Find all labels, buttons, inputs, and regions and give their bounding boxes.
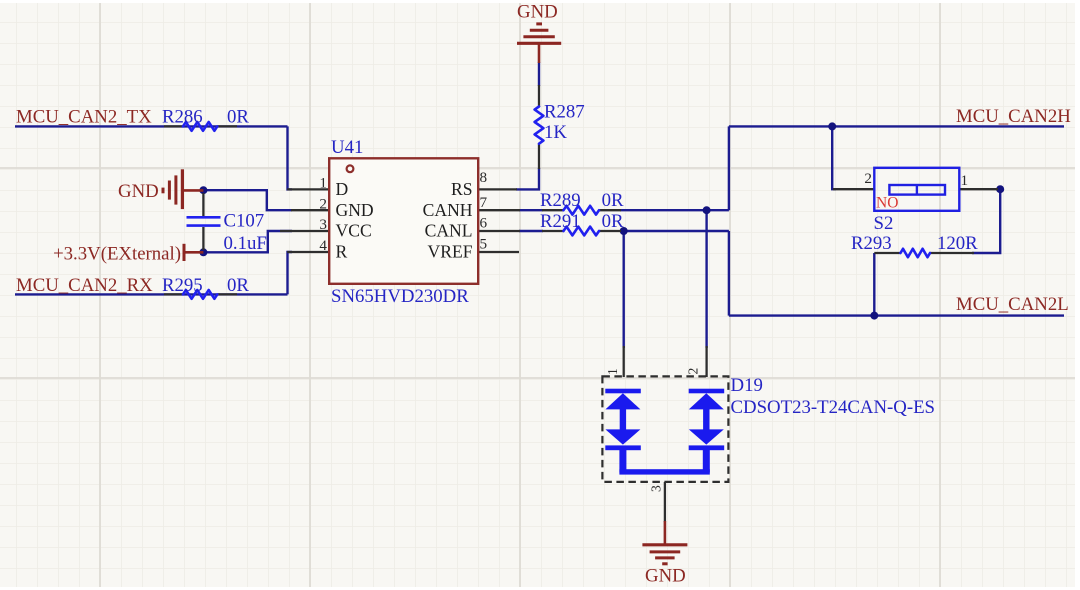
svg-text:R287: R287	[544, 102, 585, 123]
svg-text:0R: 0R	[227, 107, 249, 128]
ground symbol top (above R287)	[517, 24, 561, 63]
svg-text:7: 7	[480, 194, 488, 211]
wire CANH down to TVS pin2	[705, 210, 707, 348]
R295 pin left	[164, 293, 183, 295]
svg-text:R293: R293	[851, 233, 892, 254]
junction CAN2L / R293	[870, 312, 878, 320]
R291 pin left	[542, 230, 564, 232]
svg-text:0R: 0R	[227, 275, 249, 296]
svg-text:MCU_CAN2L: MCU_CAN2L	[956, 294, 1069, 315]
svg-text:R295: R295	[162, 275, 203, 296]
svg-text:3: 3	[649, 485, 664, 492]
TVS pin numbers (rotated)	[605, 368, 701, 492]
diode D19 left TVS pair (pin 1 leg)	[605, 389, 641, 473]
R293 pin left	[874, 252, 901, 254]
wire CANL down to TVS pin1	[623, 231, 625, 348]
R287 pin top	[538, 85, 540, 107]
svg-text:1K: 1K	[544, 122, 567, 143]
op-amp U41 body (SN65HVD230DR CAN transceiver)	[329, 158, 478, 283]
svg-text:4: 4	[319, 237, 327, 254]
svg-text:0.1uF: 0.1uF	[224, 233, 267, 254]
svg-text:MCU_CAN2_RX: MCU_CAN2_RX	[16, 275, 153, 296]
switch S2 pin2 stub	[833, 188, 875, 190]
pin 7 stub U41	[478, 209, 520, 211]
U41 pin-1 indicator circle	[347, 165, 354, 172]
svg-text:VREF: VREF	[428, 242, 473, 262]
svg-text:1: 1	[319, 175, 327, 192]
svg-text:R291: R291	[540, 211, 581, 232]
wire CAN2H drop to switch pin2	[832, 126, 836, 189]
wire CANH from R289 to corner	[519, 209, 543, 211]
svg-text:NO: NO	[876, 195, 898, 212]
junction GND/C107 top	[199, 186, 207, 194]
R289 pin left	[542, 209, 564, 211]
svg-text:1: 1	[605, 368, 620, 375]
svg-text:D: D	[336, 179, 349, 199]
svg-text:CDSOT23-T24CAN-Q-ES: CDSOT23-T24CAN-Q-ES	[731, 397, 936, 418]
wire GND dot to pin2	[203, 190, 292, 210]
svg-text:U41: U41	[331, 137, 363, 158]
svg-text:GND: GND	[118, 181, 159, 202]
svg-text:R: R	[336, 242, 348, 262]
R289 pin right	[599, 209, 621, 211]
pin 4 stub U41	[287, 251, 329, 253]
wire RX elbow up to pin4	[288, 252, 293, 294]
svg-text:CANH: CANH	[423, 200, 473, 220]
pin 5 stub U41	[478, 251, 519, 253]
junction CANL / TVS	[620, 227, 628, 235]
TVS pin3 wire to GND	[664, 482, 666, 522]
svg-text:R286: R286	[162, 107, 203, 128]
power port +3.3V(EXternal) bar	[184, 244, 203, 261]
switch pin numbers	[864, 170, 968, 189]
svg-text:2: 2	[319, 195, 327, 212]
wire MCU_CAN2L rail	[729, 314, 1064, 316]
svg-text:C107: C107	[224, 211, 265, 232]
resistor R289 zigzag	[564, 206, 600, 215]
switch S2 body	[874, 168, 959, 211]
pin 6 stub U41	[478, 230, 520, 232]
svg-text:D19: D19	[731, 375, 763, 396]
pin 2 stub U41	[291, 209, 329, 211]
svg-text:S2: S2	[874, 213, 894, 234]
svg-text:0R: 0R	[602, 211, 624, 232]
pin 8 stub U41	[478, 188, 517, 190]
R286 pin left	[164, 125, 183, 127]
svg-text:120R: 120R	[937, 233, 978, 254]
wire GND to R287 upper	[538, 62, 540, 86]
capacitor C107 plates	[187, 217, 221, 225]
TVS pin2 wire into box	[705, 346, 707, 377]
wire R287 lower to pin8	[516, 168, 539, 189]
resistor R293 zigzag	[901, 249, 931, 257]
diode D19 right TVS pair (pin 2 leg)	[689, 389, 725, 473]
svg-text:GND: GND	[336, 200, 374, 220]
ground symbol left (at C107)	[163, 169, 203, 209]
pin 3 stub U41	[280, 230, 329, 232]
junction switch pin1 / R293	[996, 185, 1004, 193]
TVS pin1 wire into box	[623, 346, 625, 377]
svg-text:0R: 0R	[602, 190, 624, 211]
svg-text:MCU_CAN2_TX: MCU_CAN2_TX	[16, 107, 152, 128]
wire CANL from R291	[519, 230, 543, 232]
wire MCU_CAN2_RX horizontal	[15, 293, 288, 295]
resistor R295 zigzag	[183, 290, 217, 299]
svg-text:MCU_CAN2H: MCU_CAN2H	[956, 106, 1071, 127]
svg-text:GND: GND	[645, 566, 686, 587]
switch S2 pin1 stub	[959, 188, 998, 190]
wire CANL riser down to CAN2L rail	[728, 231, 730, 316]
junction CANH / TVS	[703, 206, 711, 214]
pin names U41	[336, 179, 473, 262]
svg-text:6: 6	[480, 215, 488, 232]
diode D19 dashed outline box	[602, 376, 728, 482]
junction CAN2H / switch	[828, 122, 836, 130]
resistor R287 zigzag (vertical)	[535, 107, 544, 144]
svg-text:RS: RS	[451, 179, 473, 199]
svg-text:+3.3V(EXternal): +3.3V(EXternal)	[53, 244, 181, 265]
svg-text:2: 2	[864, 170, 872, 187]
resistor R286 zigzag	[183, 122, 217, 131]
wire MCU_CAN2_TX horizontal	[15, 125, 288, 127]
svg-text:2: 2	[686, 368, 701, 375]
R295 pin right	[218, 293, 237, 295]
R286 pin right	[218, 125, 237, 127]
R293 pin right	[930, 252, 974, 254]
svg-text:8: 8	[480, 169, 488, 186]
svg-text:VCC: VCC	[336, 221, 372, 241]
C107 pin top	[202, 193, 204, 216]
svg-text:SN65HVD230DR: SN65HVD230DR	[331, 286, 469, 307]
pin 1 stub U41	[287, 188, 329, 190]
wire MCU_CAN2H rail	[729, 125, 1064, 127]
svg-text:R289: R289	[540, 190, 581, 211]
svg-text:1: 1	[961, 172, 969, 189]
ground symbol bottom (D19 pin 3)	[642, 521, 687, 564]
pin numbers U41	[319, 169, 487, 254]
svg-text:3: 3	[319, 216, 327, 233]
C107 pin bottom	[202, 227, 204, 250]
wire TX elbow down to pin1	[288, 126, 293, 189]
R287 pin bottom	[538, 144, 540, 170]
wire +3.3V dot to pin3	[203, 231, 292, 252]
svg-text:GND: GND	[517, 2, 558, 23]
wire CAN2L up to R293 left	[873, 253, 875, 316]
svg-text:CANL: CANL	[425, 221, 473, 241]
svg-text:5: 5	[480, 236, 488, 253]
wire switch pin1 to R293 right	[972, 189, 1000, 253]
wire CANH riser up to CAN2H rail	[728, 126, 730, 210]
R291 pin right	[599, 230, 621, 232]
resistor R291 zigzag	[564, 227, 600, 236]
junction +3.3V/C107 bottom	[199, 248, 207, 256]
diode D19 common bus to pin 3	[619, 469, 709, 474]
